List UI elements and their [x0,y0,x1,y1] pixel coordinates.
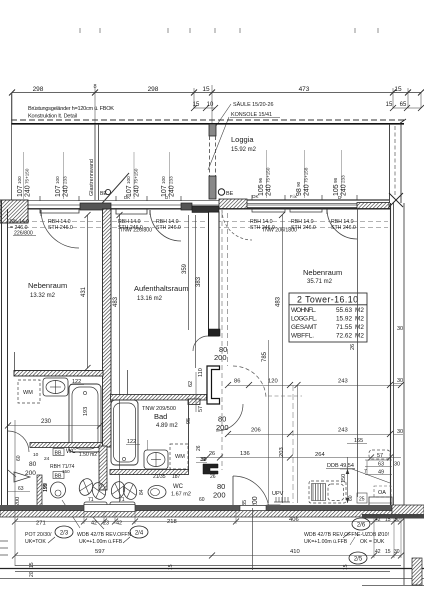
toilet 3 [91,481,108,501]
leader konsole [208,117,229,170]
left exterior wall outer line [1,200,3,517]
nebenraum lower-left door arc [8,431,29,452]
central dividing wall hatched [103,209,112,447]
svg-text:TNW 226/800: TNW 226/800 [120,228,152,234]
svg-text:483: 483 [113,296,119,307]
svg-text:15: 15 [202,86,210,93]
svg-text:WDB 42/7B REV.OFFN: WDB 42/7B REV.OFFN [77,532,132,538]
bubble 2/6 [352,518,370,530]
svg-text:UK=+1.00m ü.FFB: UK=+1.00m ü.FFB [79,539,123,545]
loggia wall left block [219,199,247,209]
Bad door swing arc [216,404,243,431]
window1 leaf [40,210,42,216]
WC room toilet [148,486,166,499]
Bad bathtub [111,400,138,465]
svg-text:BB: BB [55,474,62,480]
sink drainer hatched [312,484,326,501]
svg-text:95: 95 [186,418,192,424]
stack center lines [24,150,342,199]
svg-text:BB: BB [55,451,62,457]
column lower solid part [209,176,216,199]
svg-text:473: 473 [299,86,310,93]
svg-text:BE: BE [226,191,234,197]
svg-text:62: 62 [188,381,194,387]
column dashed middle [209,136,211,176]
pier small right of window2 [181,203,192,210]
svg-text:60: 60 [16,455,22,461]
svg-text:15: 15 [343,564,349,570]
svg-text:785: 785 [262,351,268,362]
svg-text:15: 15 [29,562,35,568]
dim line 597 [15,555,401,557]
svg-text:E-UZDB Ø10!: E-UZDB Ø10! [357,532,389,538]
shower enclosure edge [127,370,129,395]
svg-text:LOGG.FL.: LOGG.FL. [291,316,317,323]
toilet 2 [77,477,95,497]
svg-text:42: 42 [91,521,97,527]
right exterior wall line1 [390,203,392,505]
loggia window3 swing arc [327,209,357,239]
svg-text:15: 15 [394,86,402,93]
sink bowl [328,484,344,501]
svg-text:M2: M2 [355,316,364,323]
window1 door swing arc [41,210,79,248]
bubble 2/5 [349,552,367,564]
toilet 4 [110,480,127,500]
svg-text:UK=TOK: UK=TOK [25,539,46,545]
svg-text:230: 230 [41,419,52,425]
svg-text:Nebenraum: Nebenraum [303,268,342,277]
Bad WM dashed box [170,444,188,469]
svg-text:80: 80 [29,461,37,468]
svg-text:55.63: 55.63 [336,307,352,314]
svg-text:Bad: Bad [154,412,167,421]
bubble 2/3 [55,526,73,538]
svg-text:57: 57 [377,453,383,459]
washbasin left bath [43,378,68,396]
vertical dim line 483 left [119,215,121,503]
svg-text:165: 165 [354,438,363,444]
svg-text:597: 597 [95,549,105,555]
loggia window sill bracket 2 [290,208,322,212]
svg-text:15: 15 [168,564,174,570]
right exterior wall line2 [393,203,395,505]
interior vertical line x357 [357,208,359,497]
svg-text:203: 203 [279,447,285,457]
loggia corner X column [389,193,403,207]
svg-text:OA: OA [378,490,386,496]
Bad east wall line [188,399,190,470]
bathroom north wall hatched [14,371,103,377]
bottom dim chain y521 [15,521,401,523]
toilet 1 round [51,482,66,498]
underline 226/800 [13,235,36,237]
jamb line above bath wall [14,352,16,371]
svg-text:2/6: 2/6 [357,523,366,529]
svg-text:30: 30 [397,326,403,332]
svg-text:Glastrennwand: Glastrennwand [89,159,95,196]
UPV comb ticks [276,497,288,502]
svg-text:DDB 49,54: DDB 49,54 [327,463,354,469]
svg-text:Aufenthaltsraum: Aufenthaltsraum [134,284,189,293]
svg-text:10: 10 [33,452,39,458]
svg-text:72.62: 72.62 [336,333,352,340]
svg-text:26: 26 [209,451,215,457]
kitchen corner counter [369,497,392,512]
svg-text:SÄULE 15/20-26: SÄULE 15/20-26 [233,101,273,108]
dim extension in Bad [147,440,149,450]
window sill box 2 [110,502,135,510]
long vertical corridor line [252,508,254,570]
balcony left edge wall [11,93,13,200]
svg-text:15: 15 [385,549,391,555]
LM box [267,505,280,515]
svg-text:150: 150 [341,474,347,483]
wall stub to right room [192,206,219,213]
pier between window1 and window2 [80,203,111,210]
north wall mid line [0,204,390,206]
right dividing wall foot block [209,329,221,336]
window openings in south wall [84,505,135,512]
window text block far left [10,219,356,237]
right dividing wall (Aufenthaltsraum | Nebenraum) [209,212,220,336]
dim line x196 [195,372,197,412]
svg-text:200: 200 [15,497,21,506]
svg-text:406: 406 [289,517,299,523]
corridor dashed line 1 [221,213,223,470]
svg-text:STH 246.0: STH 246.0 [331,225,356,231]
svg-text:57: 57 [198,406,204,412]
window sill box 1 [84,502,107,510]
svg-text:60: 60 [348,495,354,501]
svg-text:71.55: 71.55 [336,324,352,331]
svg-text:2/3: 2/3 [60,531,69,537]
svg-text:383: 383 [196,276,202,287]
svg-text:65: 65 [400,102,407,108]
parapet wall top line [11,119,404,121]
right bottom wall band extension [392,505,424,518]
Bad east wall stub hatched [188,399,200,405]
BE circle left room [105,189,110,194]
svg-text:STH 246.0: STH 246.0 [48,225,73,231]
dashed door arc upper [233,366,266,397]
dashed datum line row1 [8,221,388,223]
leader to column [216,104,231,126]
svg-text:10: 10 [207,102,214,108]
horizontal dim line y385 [228,385,401,387]
svg-text:13.16 m2: 13.16 m2 [137,296,163,302]
svg-text:WDB 42/7B REV.OFFN: WDB 42/7B REV.OFFN [304,532,359,538]
left edge continuation dashes [0,541,8,555]
svg-text:WBFFL.: WBFFL. [291,333,314,340]
column under parapet top part [209,124,216,136]
svg-text:206: 206 [251,428,261,434]
svg-text:M2: M2 [355,324,364,331]
svg-text:15.92 m2: 15.92 m2 [231,147,257,153]
svg-text:110: 110 [198,368,204,377]
vertical dim line 150 [347,457,349,503]
svg-text:243: 243 [338,379,348,385]
svg-text:UK=+1.00m ü.FFB: UK=+1.00m ü.FFB [304,539,348,545]
svg-text:WM: WM [175,454,185,460]
sub dim ticks [191,105,218,111]
svg-text:26: 26 [210,474,216,480]
svg-text:26: 26 [196,445,202,451]
bottom dim row y457 [196,457,401,459]
dim ladder lines right corner [365,459,392,461]
svg-text:UPV: UPV [272,491,284,497]
svg-text:WOHNFL.: WOHNFL. [291,307,316,314]
svg-text:243: 243 [338,428,348,434]
table title separator [289,304,367,306]
svg-text:Nebenraum: Nebenraum [28,281,67,290]
svg-text:30: 30 [394,462,400,468]
kitchen upper dashed box [369,450,390,459]
svg-text:24: 24 [44,456,50,462]
svg-text:30: 30 [397,429,403,435]
vertical dim line 785 [268,340,270,503]
svg-text:35.71 m2: 35.71 m2 [307,279,333,285]
bathtub left [69,384,101,452]
door arc at wall foot [193,336,208,351]
svg-text:WC: WC [66,449,77,455]
WC-Bad divider wall hatched [99,446,107,490]
svg-text:15: 15 [386,102,393,108]
dashed line x293 [292,385,294,503]
window2 swing arc [150,210,181,241]
top-left corner wall block hatched [0,200,28,223]
leader diagonal toilets [62,500,80,528]
svg-text:25: 25 [359,497,365,503]
svg-text:200: 200 [214,353,227,362]
svg-text:OK = DUK: OK = DUK [360,539,385,545]
svg-text:193: 193 [83,407,89,416]
BE diagonal opening line [97,173,129,209]
OA dashed box [374,486,391,497]
toilet 5 [122,481,139,501]
svg-text:200: 200 [213,491,226,500]
svg-text:1.50 m2: 1.50 m2 [79,452,97,458]
dim extension verticals from top line [12,85,421,124]
svg-text:2/4: 2/4 [135,531,144,537]
horizontal dim line y434 [228,434,390,436]
svg-text:122: 122 [127,439,136,445]
lower slab line 3 [15,571,390,573]
bottom right hatched pier [412,558,422,585]
vertical dim line 383 [195,215,197,368]
wall piece left of corridor [196,505,236,511]
svg-text:GESAMT: GESAMT [291,324,317,331]
svg-text:WM: WM [23,390,33,396]
svg-text:KONSOLE 15/41: KONSOLE 15/41 [231,112,272,118]
bottom long line [0,578,424,580]
north wall outer line [0,200,390,202]
door 80/200 lower left [203,464,218,474]
dashed line y396 [268,395,302,397]
svg-text:218: 218 [167,519,177,525]
right outer edge line [403,203,405,585]
dashed loggia door arc [222,210,252,240]
north wall inner thick line [0,208,390,210]
svg-text:8: 8 [93,84,96,90]
flat table box [289,293,367,342]
svg-text:STH 246.0: STH 246.0 [291,225,316,231]
svg-text:298: 298 [148,86,159,93]
top dimension line [12,92,421,94]
vertical dim line 483 right [282,215,284,503]
svg-text:30: 30 [397,378,403,384]
lower slab line 2 [0,568,424,570]
svg-text:2 Tower-16.10: 2 Tower-16.10 [297,295,358,305]
bottom right extra line [362,585,424,587]
svg-text:264: 264 [315,452,325,458]
svg-text:187: 187 [172,474,181,480]
svg-text:POT 20/30/: POT 20/30/ [25,532,52,538]
Bad washbasin [144,450,168,469]
south wall hatched lower [0,511,392,518]
svg-text:359: 359 [182,263,188,274]
south exterior wall band [0,505,392,511]
svg-text:483: 483 [276,296,282,307]
svg-text:84: 84 [139,489,145,495]
svg-text:26: 26 [350,344,356,350]
svg-text:BE: BE [100,191,107,197]
bath lower wall hatched [30,443,103,448]
svg-text:13.32 m2: 13.32 m2 [30,293,56,299]
loggia right wall [389,124,391,203]
left dim extension vertical [14,420,16,566]
dim ticks on top dimension line [9,90,424,96]
svg-text:136: 136 [240,451,250,457]
svg-text:410: 410 [290,549,300,555]
right room west wall lower piece [207,366,220,404]
svg-text:15: 15 [193,102,200,108]
glass partition wall Glastrennwand [94,124,96,200]
vertical dim line 359 [188,215,190,330]
svg-text:15.92: 15.92 [336,316,352,323]
window2 sill bracket [116,209,147,214]
svg-text:42: 42 [375,549,381,555]
Bad north wall hatched [111,395,207,401]
svg-text:30: 30 [201,457,207,463]
corridor dashed line 2 [227,213,229,366]
small wall hatched left low [37,475,42,507]
svg-text:Brüstungsgeländer h=120cm ü. F: Brüstungsgeländer h=120cm ü. FBOK [28,106,114,112]
svg-text:42: 42 [116,521,122,527]
BE circle loggia [218,189,224,195]
door arc lower [233,476,269,512]
svg-text:20: 20 [29,571,35,577]
svg-text:199: 199 [43,483,49,492]
dim 230 with line [8,425,100,427]
svg-text:63: 63 [18,486,24,492]
svg-text:Konstruktion lt. Detail: Konstruktion lt. Detail [28,114,77,120]
pier right of loggia windows [357,203,389,209]
svg-text:298: 298 [33,86,44,93]
svg-text:1.67 m2: 1.67 m2 [171,492,191,498]
svg-text:M2: M2 [355,333,364,340]
svg-text:4.89 m2: 4.89 m2 [156,423,178,429]
svg-text:M2: M2 [355,307,364,314]
wc lower divider hatched [110,470,189,475]
dim chain extension verticals [84,511,401,558]
vertical dim line x297 [297,385,299,503]
parapet wall bottom line [11,123,404,125]
top crop tick marks [80,28,378,33]
washing machine WM dashed box left [18,380,40,403]
svg-text:2/5: 2/5 [354,557,363,563]
svg-text:120: 120 [268,379,278,385]
svg-text:STH 246.0: STH 246.0 [156,225,181,231]
loggia window sill bracket 1 [252,208,285,212]
pivot door triangle [14,472,30,482]
loggia window band lines [247,199,389,201]
window1 sill bracket [40,209,79,213]
WC upper texts [53,449,64,456]
svg-text:Loggia: Loggia [231,135,254,144]
svg-text:60: 60 [199,497,205,503]
parapet right end cap [399,119,406,124]
left exterior wall inner line [7,209,9,505]
bubble 2/4 [130,526,148,538]
svg-text:431: 431 [81,286,87,297]
dim 165 [347,443,367,445]
window jamb ticks [40,195,357,201]
svg-text:86: 86 [234,379,240,385]
vertical dim line 431 [87,215,89,368]
heavy band under right wall [362,514,424,519]
lower slab line 1 [15,565,401,567]
svg-text:271: 271 [36,521,46,527]
svg-text:WC: WC [173,484,184,490]
kitchen sink unit dashed [309,481,346,503]
dashed datum line row2 [8,227,388,229]
svg-text:21/35: 21/35 [153,474,166,480]
svg-text:30: 30 [394,549,400,555]
